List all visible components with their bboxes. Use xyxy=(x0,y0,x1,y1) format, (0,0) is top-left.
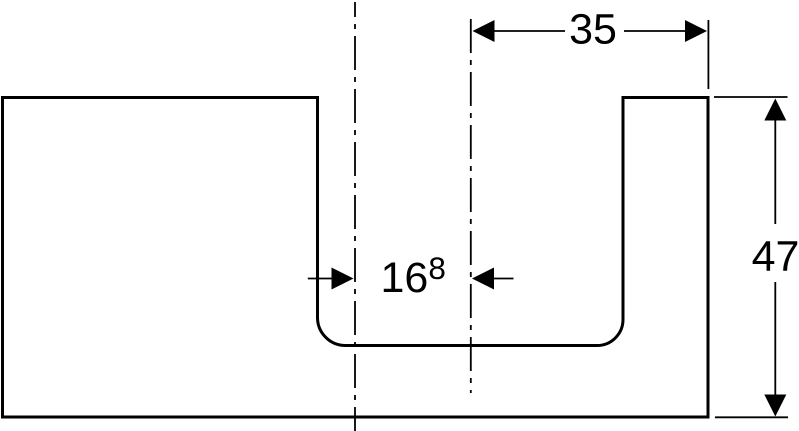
svg-text:168: 168 xyxy=(381,250,446,302)
dimension 35: line segment right xyxy=(624,30,686,32)
dimension 16.8: right tail line xyxy=(493,278,514,280)
dimension 16.8: left tail line xyxy=(308,278,333,280)
dimension 47: bottom arrowhead (pointing down) xyxy=(764,395,786,417)
countertop cross-section outline xyxy=(3,98,709,418)
dimension 35: line segment left xyxy=(493,30,565,32)
dimension 47: top arrowhead (pointing up) xyxy=(764,99,786,121)
dimension 47: upper line segment xyxy=(774,120,776,224)
dimension 35: right arrowhead xyxy=(685,20,707,42)
dimension 47: top extension line xyxy=(714,96,788,98)
extension line right of dimension 35 (x=708.4) xyxy=(707,20,709,89)
dimension 35: left arrowhead xyxy=(473,20,495,42)
dimension 47: bottom extension line xyxy=(715,416,788,418)
centerline B (x=470.8, dash-dot) xyxy=(470,19,472,393)
dimension 47: lower line segment xyxy=(774,282,776,395)
svg-text:47: 47 xyxy=(752,233,799,281)
dimension 16.8: left arrowhead (pointing right) xyxy=(332,268,354,290)
centerline A (x=355, full height, dash-dot) xyxy=(354,2,356,431)
svg-text:35: 35 xyxy=(569,6,617,54)
dimension 16.8: right arrowhead (pointing left) xyxy=(472,268,494,290)
